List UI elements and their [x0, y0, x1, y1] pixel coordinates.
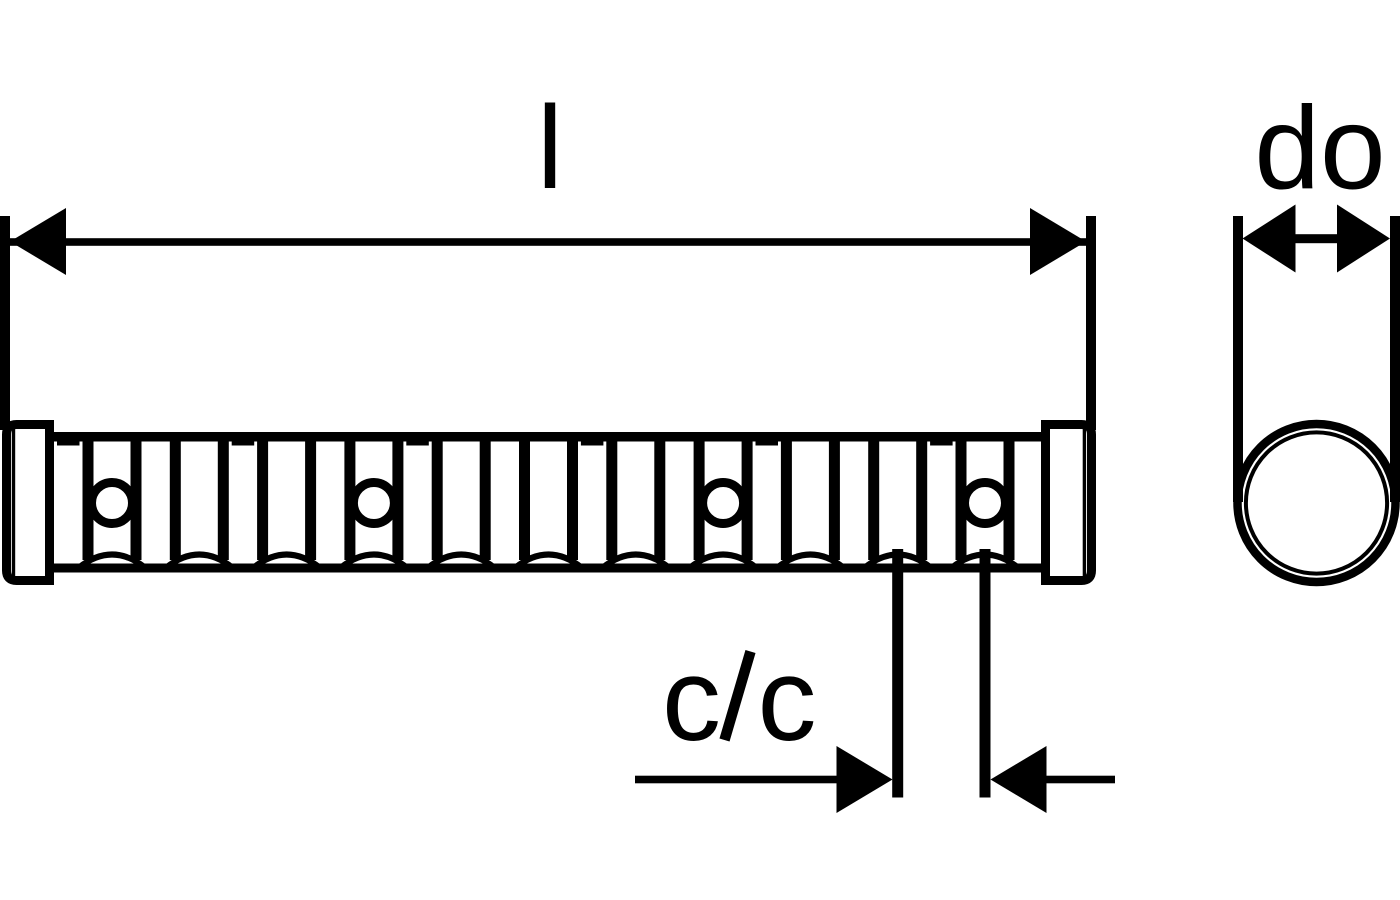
corrugation arc 4 (bottom scallop): [341, 555, 407, 568]
svg-text:l: l: [537, 82, 563, 214]
corrugation arc 6 (bottom scallop): [516, 555, 582, 568]
rib pair at corrugation 7: [606, 441, 617, 560]
corrugation arc 9 (bottom scallop): [777, 555, 843, 568]
dimension c/c: right dimension line segment: [1044, 776, 1115, 784]
svg-text:do: do: [1254, 83, 1385, 215]
corrugation arc 10 (bottom scallop): [865, 555, 931, 568]
dimension l: right extension line: [1086, 216, 1096, 430]
tube top edge: [54, 432, 1041, 442]
hole 3: [703, 483, 744, 524]
dimension do: connecting bar: [1294, 234, 1338, 243]
dimension c/c: left extension line: [892, 549, 903, 798]
corrugation arc 7 (bottom scallop): [603, 555, 669, 568]
end view outer circle: [1238, 424, 1396, 582]
rib pair at corrugation 6: [519, 441, 530, 560]
svg-text:c: c: [662, 634, 721, 766]
corrugation arc 8 (bottom scallop): [690, 555, 756, 568]
dimension l: left arrowhead: [10, 208, 66, 275]
rib pair at corrugation 11: [956, 441, 967, 560]
dimension do: right extension line: [1390, 216, 1400, 502]
corrugation arc 1 (bottom scallop): [79, 555, 145, 568]
end view inner circle: [1246, 432, 1387, 573]
tube bottom edge: [54, 564, 1041, 573]
right end cap inner line: [1083, 429, 1086, 577]
dimension c/c: right extension line: [980, 549, 991, 798]
top edge notch 5: [756, 441, 779, 446]
left end cap inner line: [12, 429, 15, 577]
top edge notch 3: [406, 441, 429, 446]
rib pair at corrugation 10: [868, 441, 879, 560]
corrugation arc 5 (bottom scallop): [428, 555, 494, 568]
dimension l: dimension line: [10, 238, 1086, 246]
left end cap outline: [7, 425, 50, 581]
svg-text:c: c: [758, 634, 817, 766]
rib pair at corrugation 8: [694, 441, 705, 560]
dimension do: left arrowhead: [1243, 205, 1296, 273]
dimension l: right arrowhead: [1030, 208, 1086, 275]
dimension c/c: left arrowhead: [837, 746, 893, 813]
rib pair at corrugation 3: [257, 441, 268, 560]
corrugation arc 11 (bottom scallop): [952, 555, 1018, 568]
top edge notch 2: [232, 441, 255, 446]
dimension do: left extension line: [1233, 216, 1243, 502]
top edge notch 4: [581, 441, 604, 446]
rib pair at corrugation 9: [781, 441, 792, 560]
dimension do: right arrowhead: [1337, 205, 1390, 273]
dimension c/c: right arrowhead: [991, 746, 1047, 813]
hole 1: [92, 483, 133, 524]
rib pair at corrugation 4: [344, 441, 355, 560]
hole 4: [965, 483, 1006, 524]
corrugation arc 3 (bottom scallop): [254, 555, 320, 568]
dimension l: left extension line: [0, 216, 10, 430]
rib pair at corrugation 5: [432, 441, 443, 560]
rib pair at corrugation 2: [170, 441, 181, 560]
top edge notch 6: [930, 441, 953, 446]
right end cap outline: [1046, 425, 1092, 581]
rib pair at corrugation 1: [83, 441, 94, 560]
top edge notch 1: [57, 441, 80, 446]
corrugation arc 2 (bottom scallop): [166, 555, 232, 568]
hole 2: [353, 483, 394, 524]
dimension c/c: left dimension line segment: [635, 776, 837, 784]
